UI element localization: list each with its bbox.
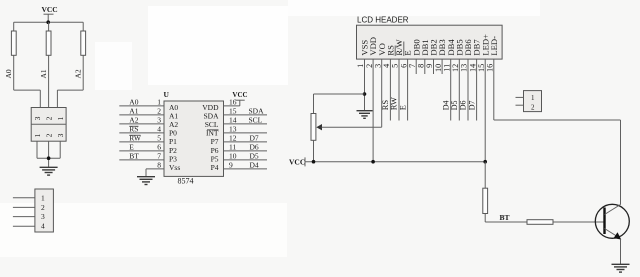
svg-text:6: 6	[157, 143, 161, 152]
pin 2 VDD	[365, 37, 378, 162]
pin 4 RS	[380, 45, 395, 121]
potentiometer RP1	[311, 94, 382, 162]
pin 5 R/W	[389, 38, 404, 120]
ground (IC Vss)	[137, 177, 155, 185]
connector J3 2-pin	[524, 91, 542, 112]
power VCC (rail)	[289, 157, 305, 166]
pin 15 LED+	[477, 34, 490, 162]
wire jog right resistor to jumper pin	[57, 90, 83, 107]
svg-text:15: 15	[229, 107, 237, 116]
svg-text:VCC: VCC	[289, 157, 305, 166]
wire pin4 RS	[119, 125, 164, 134]
svg-text:1: 1	[33, 133, 42, 137]
pin 9 DB2	[425, 39, 438, 74]
connector LCD HEADER title	[357, 15, 409, 24]
svg-text:1: 1	[531, 94, 535, 102]
wire pin16 VDD to VCC	[224, 98, 240, 107]
connector LCD HEADER body	[357, 25, 503, 59]
svg-text:4: 4	[41, 222, 45, 231]
wire pin3 A2	[119, 116, 164, 125]
svg-text:1: 1	[41, 193, 45, 202]
svg-text:VCC: VCC	[232, 91, 247, 99]
svg-text:2: 2	[157, 107, 161, 116]
wire J3 pin2 stub	[516, 104, 524, 106]
svg-text:A1: A1	[39, 69, 48, 78]
wire pin7 BT	[119, 152, 164, 161]
svg-text:8: 8	[417, 64, 426, 68]
svg-text:1: 1	[157, 98, 161, 107]
svg-text:P4: P4	[211, 163, 219, 172]
svg-text:A0: A0	[4, 69, 13, 78]
wire pin6 E	[119, 143, 164, 152]
svg-text:2: 2	[44, 116, 53, 120]
svg-text:12: 12	[229, 134, 237, 143]
wire pin10 D5	[224, 152, 268, 161]
junction dot VDD-rail	[371, 160, 375, 164]
wire jumper outputs to ground	[37, 141, 60, 167]
wire J2 pin2 stub	[13, 206, 35, 208]
wire VCC rail	[305, 161, 485, 163]
svg-text:13: 13	[229, 125, 237, 134]
resistor (base)	[527, 220, 605, 225]
svg-text:U: U	[164, 90, 170, 99]
jumper block J1	[31, 108, 66, 142]
svg-text:A1: A1	[129, 107, 138, 116]
wire pin12 D7	[224, 134, 268, 143]
svg-text:2: 2	[531, 103, 535, 111]
IC U1 body 8574	[164, 101, 224, 185]
svg-text:9: 9	[229, 161, 233, 170]
svg-text:3: 3	[41, 212, 45, 221]
svg-text:BT: BT	[500, 213, 510, 222]
svg-text:A2: A2	[129, 116, 138, 125]
wire pin9 D4	[224, 161, 268, 170]
svg-text:8: 8	[157, 161, 161, 170]
svg-text:2: 2	[41, 203, 45, 212]
svg-text:16: 16	[486, 64, 495, 72]
svg-text:3: 3	[56, 133, 65, 137]
svg-text:SCL: SCL	[249, 116, 263, 125]
wire VCC rail top-left	[14, 21, 84, 23]
wire J2 pin4 stub	[13, 225, 35, 227]
junction dot pin1/pot	[363, 92, 367, 96]
svg-text:1: 1	[56, 116, 65, 120]
wire pin11 D6	[224, 143, 268, 152]
svg-text:BT: BT	[129, 152, 139, 161]
power VCC (above IC)	[232, 91, 247, 100]
pin 16 LED-	[486, 36, 621, 205]
svg-text:E: E	[129, 143, 134, 152]
svg-text:D5: D5	[450, 101, 459, 111]
svg-text:D5: D5	[250, 152, 259, 161]
wire emitter to ground	[620, 239, 622, 265]
svg-text:D7: D7	[250, 134, 259, 143]
svg-text:A2: A2	[73, 69, 82, 78]
wire J2 pin3 stub	[13, 216, 35, 218]
wire pin5 RW	[119, 134, 164, 143]
svg-text:3: 3	[373, 64, 382, 68]
svg-text:VCC: VCC	[41, 5, 57, 14]
svg-text:D7: D7	[467, 101, 476, 111]
svg-text:2: 2	[44, 133, 53, 137]
wire pin13 INT stub	[224, 125, 268, 134]
svg-text:E: E	[397, 105, 407, 110]
svg-text:A0: A0	[129, 98, 138, 107]
resistor A1	[39, 22, 51, 107]
resistor A0	[4, 22, 16, 90]
pin 7 DB0	[408, 39, 421, 74]
svg-text:D6: D6	[250, 143, 259, 152]
svg-text:3: 3	[33, 116, 42, 120]
pin 14 DB7	[467, 39, 481, 121]
pin 10 DB3	[434, 39, 447, 74]
IC U1 designator	[164, 90, 170, 99]
svg-text:7: 7	[157, 152, 161, 161]
pin 8 DB1	[417, 39, 430, 74]
svg-text:D4: D4	[250, 161, 259, 170]
wire pin14 SCL	[224, 116, 268, 125]
ground (emitter)	[612, 264, 630, 272]
wire jog left resistor to jumper pin	[14, 90, 41, 107]
junction dot pot-rail	[312, 160, 316, 164]
junction dot	[47, 156, 51, 160]
pin 1 VSS	[356, 40, 369, 111]
pin 13 DB6	[459, 39, 473, 121]
wire pin1 A0	[119, 98, 164, 107]
wire pin2 A1	[119, 107, 164, 116]
svg-text:14: 14	[229, 116, 237, 125]
ground (left jumper)	[40, 167, 58, 175]
junction dot LED+-rail	[483, 160, 487, 164]
resistor (collector pull)	[483, 162, 488, 222]
svg-text:5: 5	[157, 134, 161, 143]
svg-text:SDA: SDA	[249, 107, 265, 116]
pin 6 E	[397, 50, 412, 120]
svg-text:3: 3	[157, 116, 161, 125]
wire J3 pin1 stub	[516, 96, 524, 98]
svg-text:11: 11	[229, 143, 236, 152]
ground (LCD VSS)	[357, 111, 373, 119]
wire pin8 Vss to ground	[146, 161, 164, 177]
svg-text:4: 4	[157, 125, 161, 134]
power VCC (top-left)	[41, 5, 57, 22]
svg-text:10: 10	[229, 152, 237, 161]
junction dot	[46, 20, 50, 24]
pin 3 VO	[373, 43, 386, 127]
resistor A2	[73, 22, 85, 90]
svg-text:Vss: Vss	[169, 163, 180, 172]
connector J2 4-pin	[35, 189, 54, 232]
svg-text:8574: 8574	[178, 176, 194, 185]
pin 12 DB5	[450, 39, 464, 120]
pin 11 DB4	[441, 39, 455, 121]
node BT label	[500, 213, 510, 222]
svg-text:LED-: LED-	[489, 36, 499, 56]
wire J2 pin1 stub	[13, 197, 35, 199]
wire pin15 SDA	[224, 107, 268, 116]
svg-text:12: 12	[451, 64, 460, 72]
svg-text:LCD HEADER: LCD HEADER	[357, 15, 409, 24]
wire to base resistor	[485, 221, 527, 223]
transistor Q1	[595, 204, 629, 239]
